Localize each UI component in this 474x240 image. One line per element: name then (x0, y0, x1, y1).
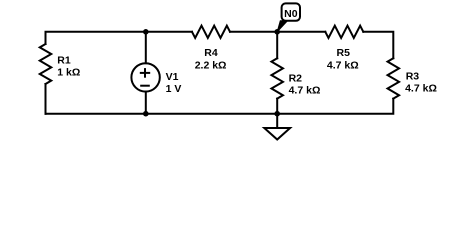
wire R2 bottom stub (276, 99, 278, 114)
junction dot top V1 (143, 29, 149, 35)
V1 minus sign (140, 85, 150, 87)
svg-text:N0: N0 (284, 8, 298, 20)
svg-text:1 kΩ: 1 kΩ (57, 67, 80, 79)
ground symbol triangle (264, 128, 290, 140)
node N0 label box (282, 3, 300, 20)
wire bottom rail (46, 99, 394, 114)
svg-text:R1: R1 (57, 55, 71, 67)
resistor R4 zigzag (192, 26, 230, 38)
wire top-left: left rail top corner to R4 (46, 32, 193, 44)
svg-text:R5: R5 (337, 47, 351, 59)
wire node N0 to R2 (276, 32, 278, 59)
wire left rail bottom: R1 to bottom rail (45, 84, 47, 114)
resistor R1 zigzag (40, 44, 52, 84)
svg-text:R2: R2 (289, 73, 303, 85)
svg-text:R3: R3 (406, 70, 420, 82)
wire V1 bottom stub (145, 92, 147, 114)
resistor R2 zigzag (271, 58, 283, 98)
wire top-middle: R4 to R5 through node N0 (230, 31, 325, 33)
svg-text:2.2 kΩ: 2.2 kΩ (195, 60, 227, 72)
svg-text:1 V: 1 V (166, 83, 182, 95)
svg-text:V1: V1 (166, 71, 179, 83)
voltage source V1 circle (131, 63, 159, 91)
V1 plus sign (140, 72, 150, 74)
junction dot bottom V1 (143, 111, 149, 117)
wire top-right: R5 to right rail corner down to R3 (363, 32, 393, 59)
junction dot node N0 (274, 29, 280, 35)
svg-text:4.7 kΩ: 4.7 kΩ (327, 60, 359, 72)
wire V1 top stub (145, 32, 147, 63)
ground stub wire (276, 114, 278, 128)
node N0 callout pointer (277, 21, 287, 32)
svg-text:4.7 kΩ: 4.7 kΩ (405, 83, 437, 95)
junction dot bottom ground (274, 111, 280, 117)
resistor R5 zigzag (325, 26, 363, 38)
svg-text:R4: R4 (204, 47, 218, 59)
svg-text:4.7 kΩ: 4.7 kΩ (289, 85, 321, 97)
resistor R3 zigzag (388, 58, 400, 98)
